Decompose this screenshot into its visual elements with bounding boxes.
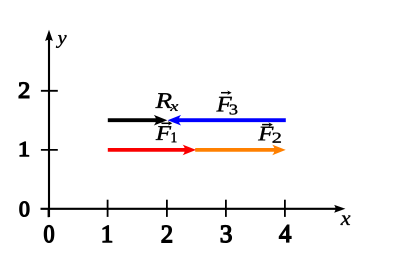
label subscript 3 of F3 (230, 104, 238, 114)
vector F1 arrowhead (183, 145, 197, 156)
y axis tick label 0 (20, 202, 29, 217)
x axis (41, 208, 338, 210)
over-arrow of F1 label (162, 122, 170, 124)
y axis tick label 1 (20, 142, 29, 156)
vector F3 arrowhead (168, 115, 182, 126)
label subscript 1 of F1 (172, 132, 177, 142)
label R of Rx (155, 93, 171, 108)
tick x=0 below axis (48, 209, 50, 217)
label F of F2 (258, 127, 274, 141)
tick x=3 (225, 200, 227, 217)
over-arrow of F2 label (262, 124, 270, 126)
x axis tick label 0 (44, 226, 53, 243)
label F of F1 (156, 126, 172, 140)
tick y=2 (41, 90, 58, 92)
vector Rx arrowhead (154, 115, 168, 126)
y axis (48, 38, 50, 217)
label subscript 2 of F2 (273, 133, 281, 143)
x axis tick label 2 (162, 226, 172, 243)
over-arrow of F3 label (221, 92, 229, 94)
x axis arrowhead (334, 205, 345, 213)
vector F1 red: wire (108, 148, 187, 152)
tick x=2 (166, 200, 168, 217)
label subscript x of Rx (170, 104, 178, 110)
y axis tick label 2 (19, 83, 29, 98)
x axis tick label 3 (221, 225, 231, 242)
axis label x (341, 216, 351, 225)
label F of F3 (216, 97, 232, 111)
tick x=4 (284, 200, 286, 217)
axis label y (56, 35, 67, 48)
x axis tick label 1 (103, 226, 112, 242)
vector F2 orange: wire (195, 148, 276, 152)
x axis tick label 4 (279, 225, 291, 242)
y axis arrowhead (45, 30, 53, 41)
tick y=1 (41, 149, 58, 151)
vector F3 blue pointing left: wire (177, 118, 286, 122)
vector F2 arrowhead (272, 145, 286, 156)
vector Rx black resultant: wire (108, 118, 158, 122)
tick x=1 (107, 200, 109, 217)
